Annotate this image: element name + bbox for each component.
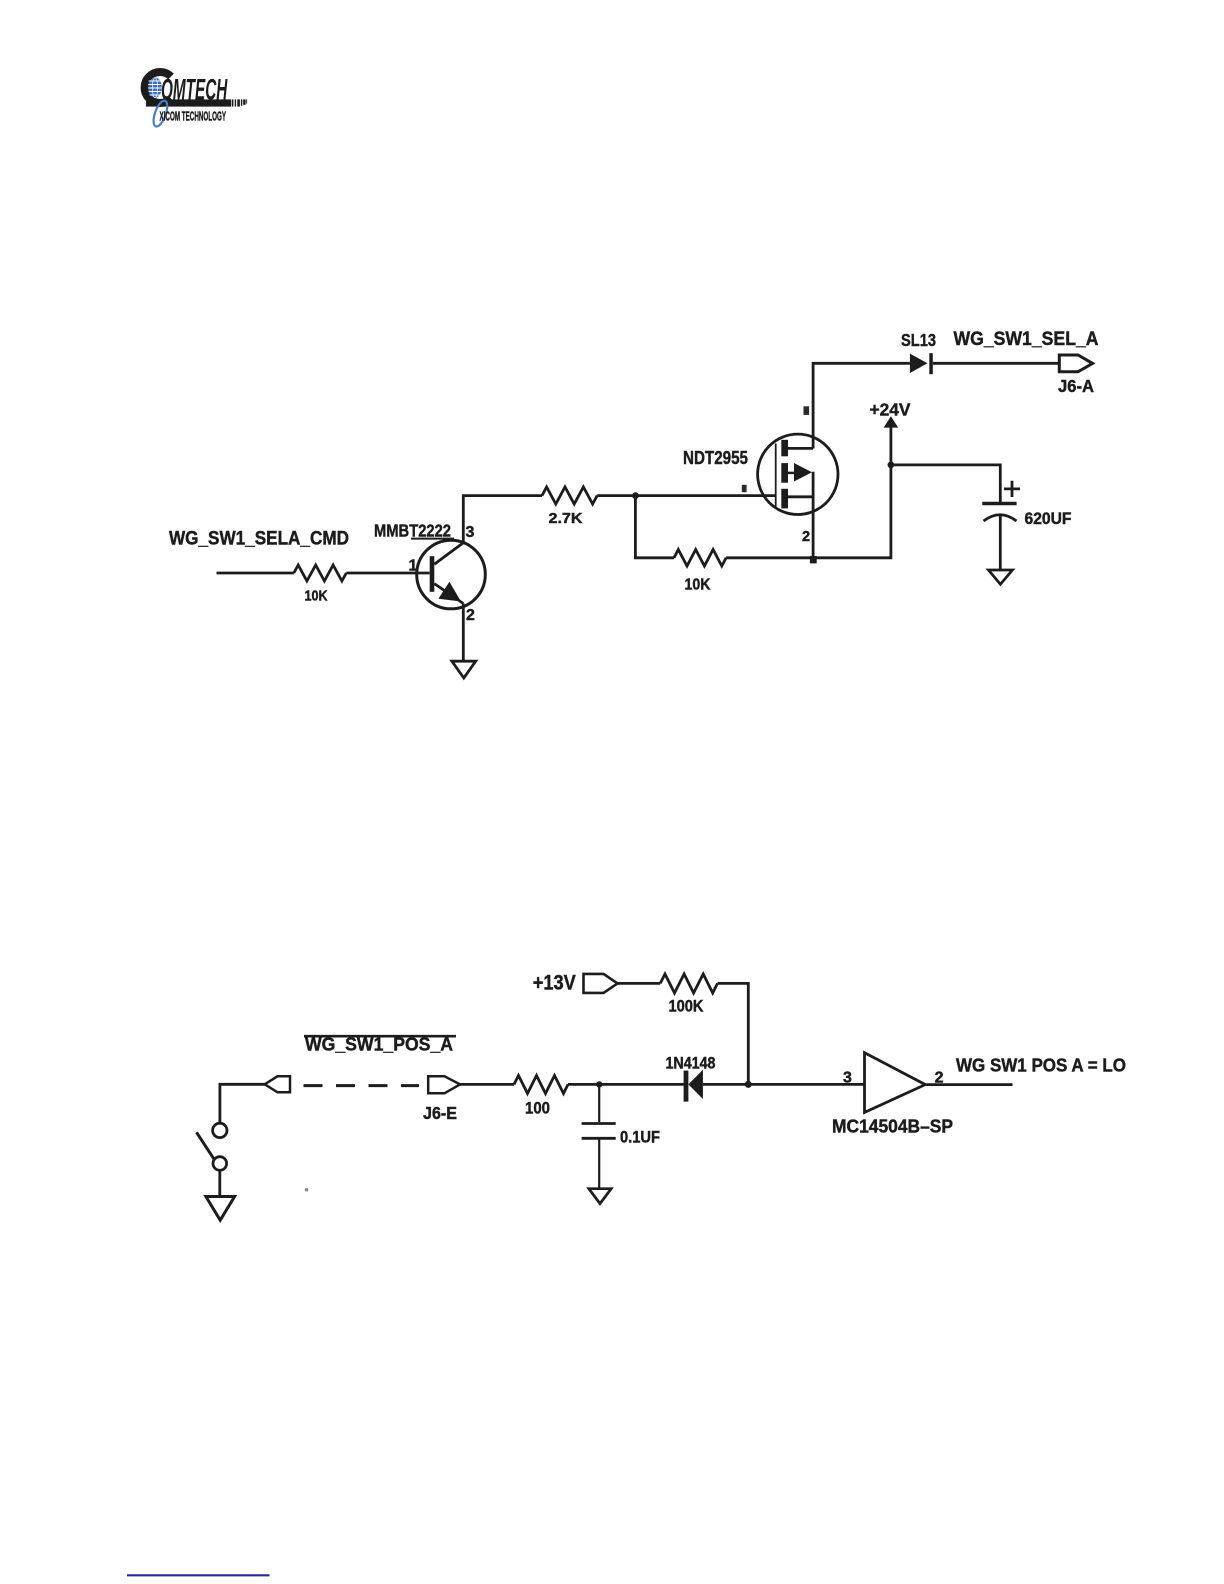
svg-text:WG_SW1_SELA_CMD: WG_SW1_SELA_CMD [169, 529, 349, 550]
node collector junction [632, 492, 639, 499]
svg-text:2.7K: 2.7K [549, 510, 583, 527]
wire R4 down to junction [718, 983, 749, 1084]
svg-text:MC14504B–SP: MC14504B–SP [832, 1116, 953, 1137]
wire diode to connector [933, 362, 1060, 365]
wire R3 to source corner [726, 465, 891, 558]
ground (0.1UF) [589, 1140, 611, 1204]
resistor R1 10K (base) [294, 565, 347, 605]
off-page connector WG_SW1_SEL_A [954, 328, 1099, 372]
capacitor C2 0.1UF [582, 1084, 660, 1146]
svg-text:MMBT2222: MMBT2222 [374, 521, 451, 541]
svg-text:WG_SW1_SEL_A: WG_SW1_SEL_A [954, 328, 1099, 350]
switch SW1 [197, 1123, 228, 1170]
mosfet Q2 NDT2955 [683, 434, 838, 514]
resistor R3 10K (gate-source) [674, 550, 726, 594]
svg-text:0.1UF: 0.1UF [620, 1129, 660, 1147]
wire Q2 drain up [813, 363, 910, 448]
node junction (pullup) [745, 1081, 752, 1088]
svg-text:XICOM TECHNOLOGY: XICOM TECHNOLOGY [160, 108, 227, 123]
pin mark (Q2 drain) [804, 406, 810, 415]
dashed net wire [304, 1084, 420, 1087]
wire R1 to Q1 base [346, 572, 429, 575]
wire R5 to diode [568, 1083, 684, 1086]
wire junction down to R3 [635, 496, 674, 558]
ground (switch) [206, 1197, 235, 1221]
node +24V junction [888, 462, 895, 469]
svg-text:NDT2955: NDT2955 [683, 447, 748, 468]
svg-text:WG SW1 POS A = LO: WG SW1 POS A = LO [956, 1055, 1126, 1076]
diode D1 SL13 [901, 330, 936, 374]
node junction (cap tap) [596, 1081, 602, 1087]
svg-text:10K: 10K [685, 577, 711, 594]
wire switch to ground [218, 1170, 221, 1202]
svg-text:620UF: 620UF [1025, 510, 1072, 528]
connector (switch side, pointing left) [265, 1076, 290, 1092]
power +13V connector [533, 971, 618, 995]
svg-text:10K: 10K [305, 588, 328, 605]
svg-text:1: 1 [409, 558, 418, 575]
wire connector to switch corner [220, 1084, 265, 1123]
wire +13V to R4 [617, 982, 661, 985]
speck artifact [305, 1188, 309, 1192]
wire R2 to gate [597, 494, 776, 497]
wire J6-E to R5 [460, 1083, 514, 1086]
svg-text:WG_SW1_POS_A: WG_SW1_POS_A [305, 1034, 453, 1055]
resistor R5 100 [514, 1076, 568, 1118]
net label WG_SW1_POS_A with overline [304, 1034, 456, 1055]
node source junction square [810, 556, 817, 563]
wire buffer output [925, 1083, 1012, 1086]
wire input to R1 [217, 572, 294, 575]
wire Q1 collector up [463, 496, 542, 543]
footer rule [127, 1574, 270, 1576]
svg-text:J6-A: J6-A [1058, 376, 1094, 396]
svg-text:+24V: +24V [870, 400, 911, 420]
svg-text:+13V: +13V [533, 971, 577, 995]
svg-text:100: 100 [525, 1099, 550, 1118]
svg-text:3: 3 [843, 1070, 852, 1087]
wire diode to buffer [703, 1083, 865, 1086]
diode D2 1N4148 [666, 1055, 716, 1102]
svg-text:3: 3 [466, 524, 475, 541]
connector J6-E (pointing right) [423, 1076, 460, 1123]
pin mark (Q2 gate) [742, 485, 747, 492]
svg-text:100K: 100K [669, 997, 705, 1016]
svg-text:2: 2 [802, 529, 810, 545]
ground (620UF) [988, 514, 1012, 584]
svg-text:1N4148: 1N4148 [666, 1055, 716, 1073]
wire Q2 source down [812, 472, 815, 558]
svg-text:J6-E: J6-E [423, 1103, 457, 1123]
ground (Q1 emitter) [452, 604, 476, 679]
wire +24V to capacitor [891, 465, 1000, 502]
logo Comtech Xicom [145, 72, 248, 128]
resistor R2 2.7K [542, 487, 597, 527]
capacitor C1 620UF [982, 481, 1071, 528]
svg-text:SL13: SL13 [901, 330, 936, 350]
buffer U1 MC14504B-SP [832, 1053, 953, 1137]
svg-text:2: 2 [466, 607, 475, 624]
svg-text:TELECOMMUNICATIONS CORP.: TELECOMMUNICATIONS CORP. [183, 101, 230, 106]
power +24V [870, 400, 911, 465]
transistor Q1 MMBT2222 [374, 521, 485, 609]
resistor R4 100K [660, 974, 717, 1016]
